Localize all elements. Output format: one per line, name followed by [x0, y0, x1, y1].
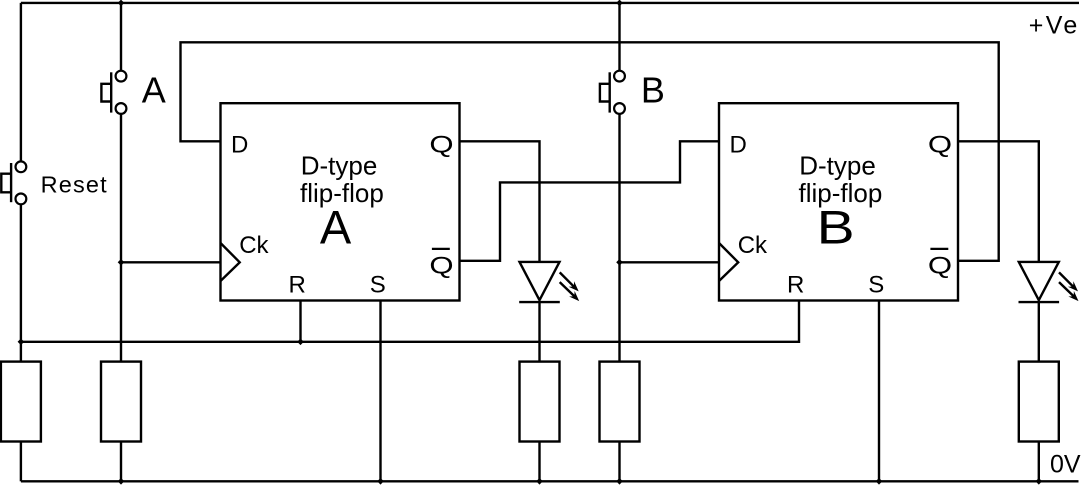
pushbutton SW2 (A) [101, 71, 126, 114]
junction top rail / button A [118, 0, 125, 6]
wire LED2 to R5 [1038, 302, 1040, 362]
LED D1 arrow shafts [560, 272, 575, 296]
LED D1 arrowheads [569, 281, 579, 291]
wire R5 to 0V rail [1038, 442, 1040, 482]
wire Qbar A to D B [460, 141, 720, 260]
wire left rail upper (to Reset) [20, 3, 22, 162]
junction R rail / left rail [18, 339, 25, 346]
pushbutton SW1 (Reset) [1, 161, 26, 204]
LED D1 triangle [520, 262, 560, 300]
svg-text:D: D [231, 132, 248, 159]
svg-text:Q: Q [928, 253, 952, 280]
svg-text:B: B [641, 70, 665, 111]
junction Ck B [616, 259, 623, 266]
svg-text:Q: Q [429, 132, 453, 159]
resistor R2 [101, 362, 141, 442]
wire top rail to button A [120, 3, 122, 71]
wire R rail (reset net) [21, 301, 799, 342]
svg-text:R: R [787, 271, 804, 298]
wire R4 to 0V rail [618, 442, 620, 482]
resistor R3 [520, 362, 560, 442]
flip-flop U2 box [719, 103, 958, 300]
wire R1 to 0V rail [20, 442, 22, 482]
resistor R4 [600, 362, 640, 442]
wire S pin B to 0V [878, 301, 880, 482]
LED D2 cathode bar [1019, 301, 1060, 303]
svg-text:Q: Q [928, 132, 952, 159]
wire left rail lower (Reset to R1) [20, 204, 22, 361]
junction 0V / R2 [118, 478, 125, 485]
flip-flop U2 clock triangle [719, 243, 738, 281]
svg-text:D-type: D-type [799, 151, 876, 181]
svg-text:S: S [370, 271, 386, 298]
junction R rail / R pin A [297, 339, 304, 346]
flip-flop U1 box [221, 103, 460, 300]
svg-text:D-type: D-type [301, 151, 378, 181]
LED D2 arrow shafts [1059, 272, 1074, 296]
svg-text:S: S [868, 271, 884, 298]
junction 0V / S A [377, 478, 384, 485]
junction 0V / R5 [1036, 478, 1043, 485]
svg-text:Ck: Ck [239, 232, 269, 259]
wire LED1 to R3 [538, 302, 540, 362]
svg-text:Ck: Ck [738, 232, 768, 259]
svg-text:B: B [817, 200, 855, 253]
wire Ck B input [620, 261, 720, 263]
junction 0V / R3 [536, 478, 543, 485]
svg-text:A: A [142, 70, 166, 111]
resistor R5 [1019, 362, 1059, 442]
wire 0V bottom rail [21, 480, 1079, 482]
LED D2 arrowheads [1068, 281, 1078, 291]
junction 0V / S B [876, 478, 883, 485]
flip-flop U1 clock triangle [221, 243, 240, 281]
wire Q A to LED1 [460, 141, 540, 262]
wire R2 to 0V rail [120, 442, 122, 482]
svg-text:Reset: Reset [41, 172, 107, 198]
svg-text:0V: 0V [1050, 450, 1081, 478]
wire +Ve top rail [21, 2, 1079, 4]
wire top rail to button B [618, 3, 620, 71]
wire button A to R2 [120, 114, 122, 362]
svg-text:+Ve: +Ve [1029, 12, 1078, 40]
LED D2 triangle [1019, 262, 1059, 300]
svg-text:Q: Q [429, 253, 453, 280]
svg-text:D: D [730, 132, 747, 159]
wire R pin A drop [299, 301, 301, 342]
wire Qbar B feedback to D A [181, 42, 999, 260]
wire S pin A to 0V [379, 301, 381, 482]
LED D1 cathode bar [519, 301, 560, 303]
resistor R1 [1, 362, 41, 442]
wire Q B to LED2 [958, 141, 1039, 262]
junction top rail / button B [616, 0, 623, 6]
wire button B to R4 [618, 114, 620, 362]
pushbutton SW3 (B) [600, 71, 625, 114]
svg-text:A: A [320, 200, 352, 253]
junction Ck A [118, 259, 125, 266]
junction 0V / R4 [616, 478, 623, 485]
svg-text:R: R [289, 271, 306, 298]
wire R3 to 0V rail [538, 442, 540, 482]
wire Ck A input [121, 261, 221, 263]
